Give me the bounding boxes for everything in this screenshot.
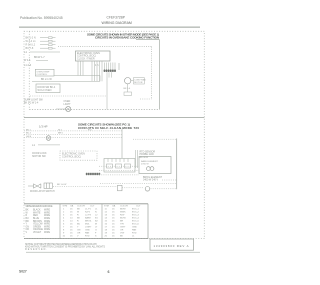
svg-text:GN/Y: GN/Y — [120, 227, 126, 229]
svg-text:S027: S027 — [19, 270, 27, 274]
door connector box — [44, 183, 52, 188]
svg-text:W 4-6: W 4-6 — [24, 59, 31, 62]
svg-text:YELLOW: YELLOW — [33, 224, 43, 226]
svg-text:WIRE: WIRE — [44, 224, 50, 226]
svg-text:Y/R: Y/R — [120, 224, 124, 226]
terminal under motor — [124, 92, 132, 95]
svg-text:BR 5: BR 5 — [58, 133, 64, 135]
svg-text:BK 1-4: BK 1-4 — [124, 88, 131, 90]
svg-text:RED: RED — [33, 215, 38, 217]
table middle section columns — [63, 204, 99, 237]
svg-text:ORANGE: ORANGE — [33, 228, 43, 231]
svg-text:CIRCUITS IN OVEN BAKE COOKING: CIRCUITS IN OVEN BAKE COOKING FUNCTION — [95, 36, 159, 40]
svg-text:SYM: SYM — [63, 205, 68, 207]
svg-text:CONTROL: CONTROL — [37, 74, 48, 76]
svg-text:MDL: MDL — [85, 224, 90, 226]
svg-text:EOC-2: EOC-2 — [132, 212, 139, 214]
svg-text:BU 7-8: BU 7-8 — [26, 47, 34, 50]
svg-text:CCT: CCT — [136, 205, 141, 207]
lamp oven light — [66, 106, 71, 111]
wire — [38, 144, 60, 146]
svg-text:BK/W: BK/W — [120, 209, 127, 211]
svg-text:RTD: RTD — [132, 233, 137, 235]
wire dotted door — [53, 186, 117, 188]
load circle 1 — [147, 167, 151, 171]
svg-text:WIRE: WIRE — [44, 218, 50, 220]
svg-text:WIRE: WIRE — [44, 221, 50, 223]
svg-text:OR: OR — [26, 229, 30, 231]
svg-text:BR: BR — [26, 221, 30, 223]
inner dotted box top — [58, 46, 152, 48]
dotted rows right low — [162, 179, 177, 181]
svg-text:BK: BK — [26, 210, 30, 212]
svg-text:L1: L1 — [32, 143, 35, 147]
table top border — [24, 203, 148, 205]
section divider — [24, 117, 204, 119]
svg-text:BK 1-6 W: BK 1-6 W — [57, 184, 67, 186]
wire — [54, 75, 100, 77]
table divider 1 — [59, 204, 61, 239]
svg-text:N-P2: N-P2 — [85, 212, 91, 214]
upper box solid right edge — [159, 40, 161, 110]
wire row labels upper left — [26, 37, 37, 51]
svg-text:VIOLET: VIOLET — [33, 232, 42, 234]
svg-text:SYM: SYM — [104, 205, 109, 207]
inline connector — [118, 185, 123, 191]
wire dotted row 2 — [24, 133, 122, 135]
motor — [125, 78, 131, 84]
wire — [118, 63, 120, 70]
wire dotted right — [133, 138, 177, 140]
footer rule — [26, 251, 200, 253]
svg-text:2700 W: 2700 W — [141, 164, 149, 166]
table divider 2 — [101, 204, 103, 239]
svg-text:W 8-2 OVEN: W 8-2 OVEN — [38, 89, 52, 92]
inner dashed vertical left — [28, 31, 30, 109]
lamp 2 — [46, 136, 51, 141]
labels right cluster — [140, 150, 156, 159]
svg-text:OR: OR — [120, 230, 124, 232]
wires into connector — [105, 63, 116, 70]
wire dotted — [122, 187, 144, 189]
svg-text:G: G — [95, 230, 97, 232]
svg-text:EOC-3: EOC-3 — [132, 215, 139, 217]
svg-text:BR: BR — [120, 221, 123, 223]
connector dark strip lower — [86, 173, 100, 176]
svg-text:GA: GA — [112, 204, 116, 207]
relay contacts — [107, 164, 131, 168]
svg-text:WIRE: WIRE — [44, 232, 50, 234]
svg-text:BROWN: BROWN — [33, 221, 42, 223]
svg-text:GREEN: GREEN — [33, 226, 42, 228]
wire L1 — [30, 51, 60, 53]
svg-text:BK 2-1 W: BK 2-1 W — [41, 78, 52, 81]
svg-text:WIRE: WIRE — [44, 229, 50, 231]
svg-text:L1: L1 — [24, 50, 27, 54]
svg-text:RTD: RTD — [85, 236, 90, 238]
anti-tip switch box — [36, 84, 60, 93]
svg-text:CONTROL (EOC): CONTROL (EOC) — [62, 156, 81, 159]
svg-text:Publication No. 5995540245: Publication No. 5995540245 — [20, 16, 63, 20]
svg-text:EOC-1: EOC-1 — [132, 209, 139, 211]
svg-text:BU 4: BU 4 — [26, 133, 32, 135]
table right border — [147, 204, 149, 239]
svg-text:BU/W: BU/W — [120, 218, 127, 220]
fan motor label box — [134, 78, 145, 84]
svg-text:134903800 REV A: 134903800 REV A — [154, 244, 189, 248]
svg-text:COLOR: COLOR — [120, 205, 128, 207]
svg-text:CLOCK / TIMER: CLOCK / TIMER — [77, 57, 95, 60]
svg-text:GND: GND — [132, 227, 137, 229]
load circle 2 — [150, 167, 154, 171]
svg-text:GN: GN — [26, 226, 30, 228]
upper box solid top edge — [136, 39, 160, 41]
row labels — [26, 129, 92, 138]
EOC control box — [76, 51, 111, 61]
svg-text:WIRE: WIRE — [44, 212, 50, 214]
wire — [131, 80, 134, 82]
svg-text:GND: GND — [85, 230, 90, 232]
svg-text:GN 6: GN 6 — [26, 136, 32, 138]
lamp 3 — [145, 187, 150, 192]
svg-text:BK 1: BK 1 — [26, 129, 32, 131]
wire vertical — [121, 129, 123, 159]
svg-text:BROIL: BROIL — [85, 221, 92, 223]
svg-text:L1 2-3: L1 2-3 — [24, 64, 32, 67]
svg-text:FAN: FAN — [132, 229, 137, 232]
wire below motor — [127, 84, 129, 92]
header rule — [19, 26, 200, 28]
wire dotted — [151, 188, 177, 190]
svg-text:GN: GN — [77, 230, 81, 232]
wire right vertical — [176, 139, 178, 190]
table bottom border — [24, 238, 148, 240]
outer dashed border — [24, 31, 204, 238]
svg-text:BLACK: BLACK — [33, 209, 41, 212]
svg-text:WIRE: WIRE — [44, 215, 50, 217]
svg-text:MOTOR SW: MOTOR SW — [32, 155, 46, 158]
svg-text:BU: BU — [26, 218, 30, 220]
svg-text:BU: BU — [77, 224, 80, 226]
wire stub — [36, 59, 48, 61]
fuse symbols on rows — [49, 37, 53, 49]
svg-text:WIRE: WIRE — [44, 210, 50, 212]
inner dotted box right — [151, 47, 153, 99]
svg-text:EOC-5: EOC-5 — [132, 221, 139, 223]
svg-text:WIRING DIAGRAM COLOR CODE: WIRING DIAGRAM COLOR CODE — [26, 205, 53, 208]
svg-text:WIRING DIAGRAM: WIRING DIAGRAM — [102, 21, 132, 25]
element box — [139, 157, 171, 174]
svg-text:FAN: FAN — [85, 232, 90, 235]
svg-text:3400 W 240 V: 3400 W 240 V — [143, 179, 159, 182]
wire dotted row 3 — [24, 137, 122, 139]
svg-text:GA: GA — [70, 204, 74, 207]
svg-text:L2-P3: L2-P3 — [85, 215, 92, 217]
relay board box — [104, 159, 135, 173]
notice text — [25, 243, 105, 251]
dotted rows mid — [99, 165, 139, 167]
svg-text:COLOR: COLOR — [77, 205, 85, 207]
revision box — [150, 239, 194, 250]
svg-text:EOC-6: EOC-6 — [132, 224, 139, 226]
wire dotted — [30, 95, 107, 97]
door switch bowtie — [28, 185, 34, 187]
wire — [106, 72, 108, 109]
svg-text:BK 3-2 W 1-4: BK 3-2 W 1-4 — [24, 102, 39, 105]
svg-text:WHITE: WHITE — [33, 212, 41, 214]
svg-text:BAKE ELEMENT: BAKE ELEMENT — [141, 160, 158, 163]
svg-text:CFEF372BP: CFEF372BP — [107, 15, 126, 19]
svg-text:RESERVED.: RESERVED. — [25, 248, 47, 251]
inner dotted box bottom stub — [140, 98, 152, 100]
bus wires EOC to connector — [78, 61, 102, 81]
wire bus — [32, 80, 100, 82]
svg-text:EOC-4: EOC-4 — [132, 218, 139, 220]
table right section columns — [104, 204, 141, 237]
wire dotted row 1 — [24, 130, 122, 132]
svg-text:BK/W 1-7: BK/W 1-7 — [34, 56, 45, 59]
wire — [56, 108, 66, 110]
svg-text:W/BK: W/BK — [120, 212, 126, 214]
svg-text:BLUE: BLUE — [33, 218, 39, 220]
svg-text:LIGHT: LIGHT — [64, 103, 72, 106]
svg-text:DOOR LATCH SWITCH: DOOR LATCH SWITCH — [30, 190, 55, 193]
wires from connector — [108, 72, 110, 77]
svg-text:LIGHT: LIGHT — [85, 227, 92, 229]
table color code column — [26, 205, 53, 234]
thermostat box — [35, 69, 54, 76]
connector P1 dark strip — [104, 70, 116, 73]
svg-text:M: M — [95, 224, 97, 226]
svg-text:MOTOR: MOTOR — [134, 82, 143, 84]
wire stubs upper left — [40, 38, 56, 49]
svg-text:1/3 HP: 1/3 HP — [39, 125, 48, 129]
svg-text:6: 6 — [108, 270, 110, 274]
wire pair — [135, 150, 137, 168]
svg-text:L1-P1: L1-P1 — [85, 209, 92, 211]
svg-text:WIRE: WIRE — [44, 226, 50, 228]
svg-text:OR: OR — [77, 233, 81, 235]
EOC dashed box lower — [60, 151, 97, 160]
upper box bottom edge — [29, 109, 159, 111]
svg-text:BAKE: BAKE — [85, 217, 91, 220]
svg-text:CCT: CCT — [90, 205, 95, 207]
